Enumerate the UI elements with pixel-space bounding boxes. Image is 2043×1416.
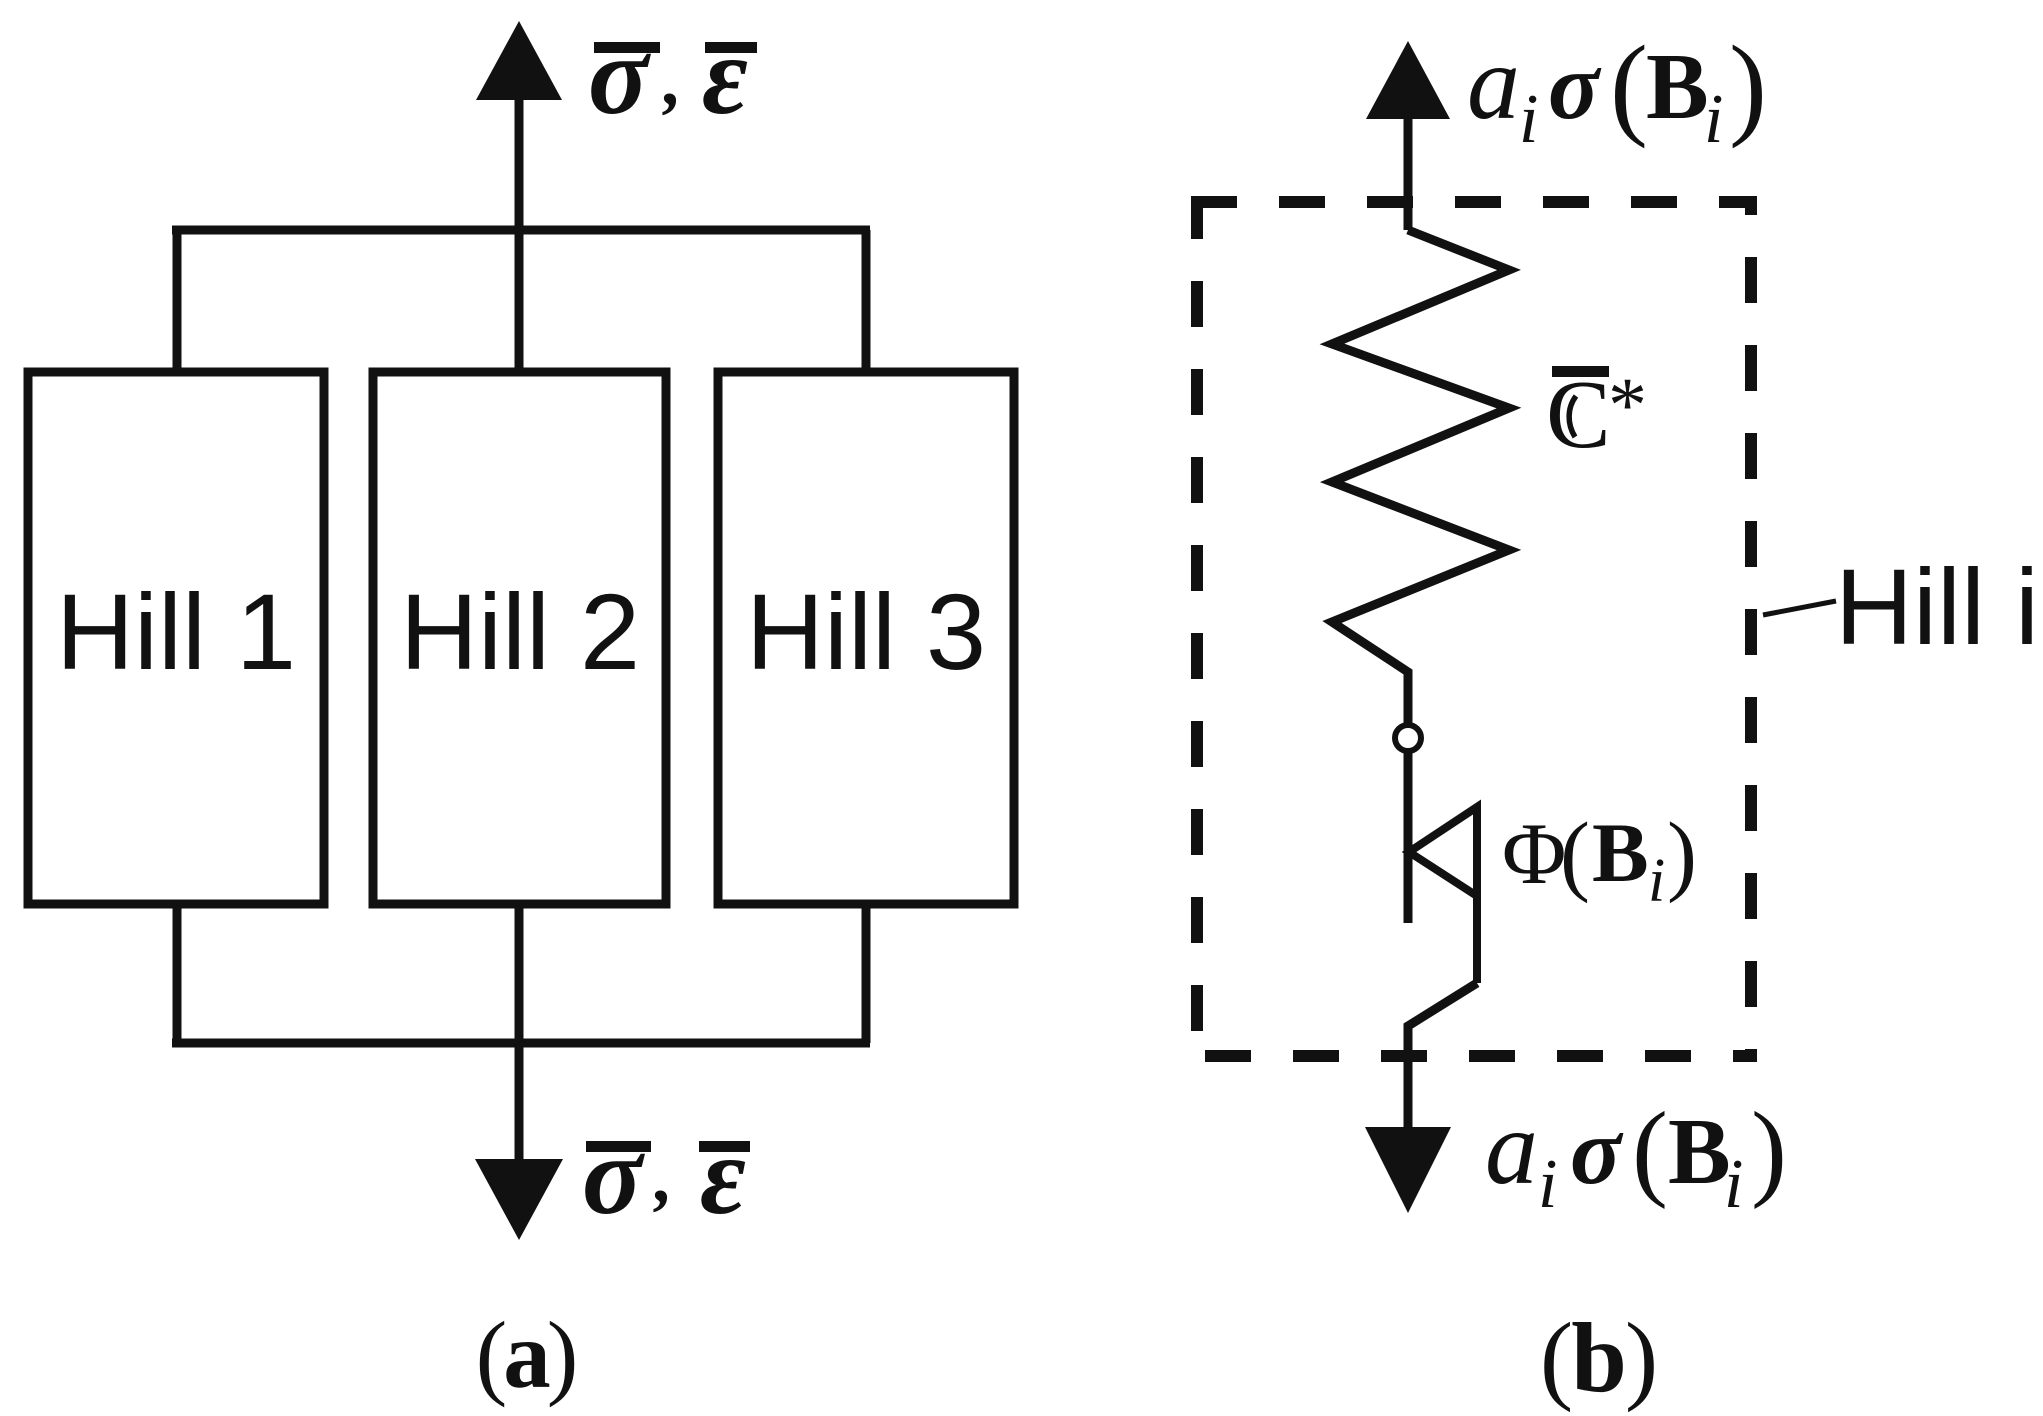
svg-text:(b): (b) [1540, 1302, 1656, 1413]
svg-text:Hill 1: Hill 1 [56, 571, 296, 692]
svg-text:Hill 3: Hill 3 [746, 571, 986, 692]
svg-text:σ,ε: σ,ε [588, 14, 748, 138]
svg-text:a i σ ( B: a i σ ( B i ) [1467, 22, 1767, 164]
svg-text:C: C [1546, 361, 1611, 468]
svg-text:Hill i: Hill i [1835, 546, 2039, 667]
svg-text:Hill 2: Hill 2 [400, 571, 640, 692]
svg-text:Φ ( B i ): Φ ( B i ) [1502, 805, 1697, 920]
svg-text:a i σ ( B: a i σ ( B i ) [1485, 1089, 1787, 1229]
svg-text:*: * [1608, 361, 1647, 448]
svg-text:σ,ε: σ,ε [582, 1114, 746, 1238]
svg-text:(a): (a) [476, 1302, 575, 1408]
